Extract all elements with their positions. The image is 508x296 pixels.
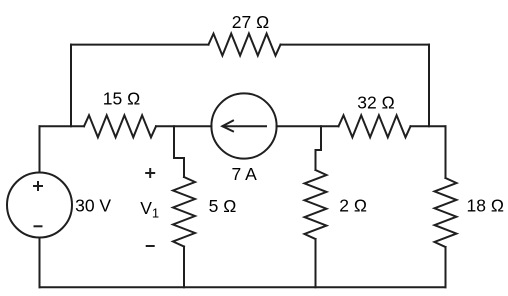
svg-text:27 Ω: 27 Ω: [232, 12, 269, 32]
svg-text:V1: V1: [140, 198, 159, 221]
svg-text:32 Ω: 32 Ω: [357, 92, 394, 112]
svg-text:2 Ω: 2 Ω: [339, 196, 367, 216]
svg-text:5 Ω: 5 Ω: [209, 196, 237, 216]
svg-text:15 Ω: 15 Ω: [103, 89, 140, 109]
svg-text:7 A: 7 A: [232, 164, 258, 184]
svg-text:30 V: 30 V: [75, 195, 111, 215]
svg-text:18 Ω: 18 Ω: [467, 196, 504, 216]
